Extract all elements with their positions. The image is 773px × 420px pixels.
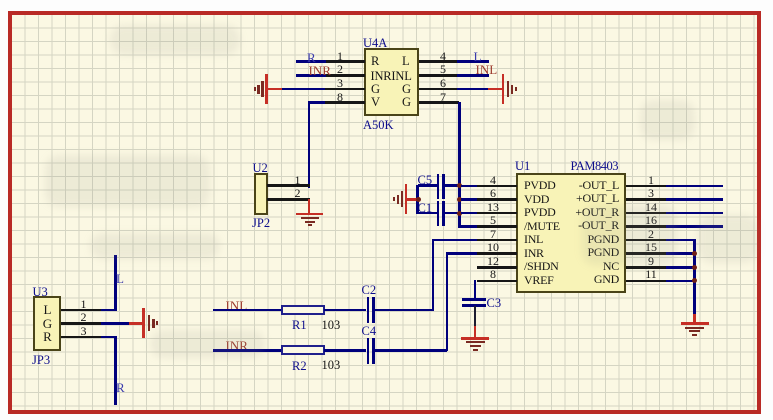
U1 pin name VREF — [524, 274, 553, 287]
junction dot right rail pin 11 — [692, 278, 697, 283]
U4A pin 6 stub — [419, 88, 459, 91]
wire red stub U4A pin6 ground — [488, 88, 503, 91]
U1 pin name INR — [524, 247, 544, 260]
watermark smudge 6 — [150, 330, 265, 358]
wire U4A pin 8 horizontal — [308, 101, 325, 104]
U1 pin number 6 — [484, 187, 502, 200]
C5 designator label — [418, 174, 433, 187]
U4A pin number 7 — [437, 91, 449, 104]
ground GND3 below U2 pin 2 — [296, 213, 323, 216]
wire U1 gnd row y280 — [666, 280, 695, 283]
capacitor C3 plates — [462, 298, 486, 301]
U1 pin 15 stub — [626, 252, 666, 255]
U1 pin number 2 — [642, 228, 660, 241]
U1 pin number 16 — [642, 214, 660, 227]
U1 pin name +OUT_L — [516, 192, 619, 205]
net label L (bottom left) — [116, 272, 124, 286]
U4A pin number 2 — [334, 63, 346, 76]
U1 designator label — [515, 160, 530, 173]
U2 value label JP2 — [252, 217, 270, 230]
wire INL left segment — [213, 309, 282, 312]
junction dot at C5/C1 ground tap — [416, 197, 421, 202]
U1 pin 9 stub — [626, 266, 666, 269]
U1 pin name GND — [516, 273, 619, 286]
U3 pin 2 stub — [61, 322, 102, 325]
ground GND7 at U3 pin 2 — [142, 308, 145, 338]
net label L (top right) — [474, 50, 482, 64]
watermark smudge 1 — [90, 233, 220, 259]
U1 pin number 9 — [642, 255, 660, 268]
U1 pin 2 stub — [626, 239, 666, 242]
wire R2 to C4 — [324, 349, 366, 352]
op-amp U4A body — [364, 48, 419, 116]
ground GND2 at U4A pin 6 — [502, 74, 505, 104]
U4A pin number 1 — [334, 50, 346, 63]
U1 pin 5 stub — [477, 225, 517, 228]
C2 designator label — [362, 284, 377, 297]
watermark smudge 5 — [45, 155, 210, 207]
wire rail to U1 pin 13 — [461, 212, 478, 215]
U1 value label PAM8403 — [571, 160, 618, 173]
U1 pin 3 stub — [626, 198, 666, 201]
net label INR (left) — [226, 339, 248, 353]
U1 pin name INL — [524, 233, 543, 246]
U1 pin 13 stub — [477, 212, 517, 215]
U1 pin 14 stub — [626, 212, 666, 215]
wire net INR to U4A pin 2 — [296, 74, 326, 77]
U1 pin number 1 — [642, 174, 660, 187]
U1 pin name PGND — [516, 233, 619, 246]
wire R1 to C2 — [324, 309, 366, 312]
net label INR (top left) — [309, 64, 331, 78]
U1 pin name NC — [516, 260, 619, 273]
capacitor C5 plates — [437, 174, 440, 199]
wire rail to U1 pin 5 — [459, 225, 478, 228]
net label R — [307, 51, 316, 65]
wire U1 output row y226 — [666, 225, 723, 228]
ground GND5 below right rail — [681, 322, 709, 325]
U1 pin number 4 — [484, 174, 502, 187]
R1 value label 103 — [322, 319, 341, 332]
C3 designator label — [487, 297, 502, 310]
R2 designator label — [292, 360, 307, 373]
wire C1 row left segment — [418, 212, 437, 215]
U4A inside pin names INR INL — [371, 70, 412, 83]
wire U4A pin 4 to net L — [457, 60, 489, 63]
capacitor C4 plates — [367, 338, 370, 364]
C4 designator label — [362, 325, 377, 338]
U4A pin 8 stub — [325, 101, 365, 104]
U2 designator label — [253, 162, 268, 175]
U2 pin 2 wire — [267, 198, 310, 201]
ground GND4 left of C5/C1 — [405, 184, 408, 214]
U3 value label JP3 — [32, 354, 50, 367]
U1 pin 6 stub — [477, 198, 517, 201]
wire red stub U4A pin3 ground — [267, 88, 282, 91]
wire rail to U1 pin 4 — [461, 185, 478, 188]
U4A inside pin name L — [402, 55, 410, 68]
U2 pin 1 wire — [267, 184, 310, 187]
wire net R vertical drop — [114, 336, 117, 405]
U2 pin number 2 — [291, 187, 304, 200]
U1 pin number 14 — [642, 201, 660, 214]
net label R (bottom left) — [116, 381, 125, 395]
U1 pin name -OUT_R — [516, 219, 619, 232]
wire U1 output row y186 — [666, 185, 723, 188]
U1 pin number 3 — [642, 187, 660, 200]
wire U1 output row y213 — [666, 212, 723, 215]
U4A pin 2 stub — [325, 74, 365, 77]
U1 pin name VDD — [524, 193, 549, 206]
junction dot rail row13 — [457, 211, 462, 216]
junction dot rail row4 — [457, 183, 462, 188]
wire U1 gnd row y253 — [666, 252, 695, 255]
U1 pin name +OUT_R — [516, 206, 619, 219]
wire U4A pin 5 to net INL — [457, 74, 489, 77]
junction dot rail row6 — [457, 197, 462, 202]
wire net R to U4A pin 1 — [296, 60, 326, 63]
U4A pin 1 stub — [325, 60, 365, 63]
U1 pin 1 stub — [626, 185, 666, 188]
C1 designator label — [418, 202, 433, 215]
U3 pin number 2 — [78, 311, 90, 324]
wire red stem C3 ground — [474, 326, 477, 338]
wire red stub ground to C5/C1 — [407, 198, 419, 201]
U4A pin 7 stub — [419, 101, 459, 104]
U4A designator label — [363, 37, 387, 50]
wire red stem right ground — [693, 314, 696, 323]
wire INL to U1 pin 7 — [432, 239, 477, 242]
U3 inside pin name R — [40, 330, 55, 344]
U4A pin number 3 — [334, 77, 346, 90]
wire INR to U1 pin 10 — [446, 252, 477, 255]
U1 pin number 8 — [484, 268, 502, 281]
watermark smudge 4 — [640, 100, 695, 140]
U4A pin 3 stub — [325, 88, 365, 91]
wire U1 gnd row y267 — [666, 266, 695, 269]
resistor R2 — [281, 345, 325, 355]
U4A pin number 5 — [437, 63, 449, 76]
U3 inside pin name G — [40, 317, 55, 331]
net label INL (left) — [226, 299, 248, 313]
U1 pin number 12 — [484, 255, 502, 268]
U4A inside pin name V — [371, 96, 380, 109]
U4A pin number 4 — [437, 50, 449, 63]
wire U1 gnd row y240 — [666, 239, 695, 242]
ground GND6 below C3 — [461, 337, 489, 340]
wire U3 pin 1 to riser — [101, 309, 117, 312]
capacitor C2 plates — [367, 297, 370, 323]
U1 pin number 10 — [484, 241, 502, 254]
junction dot right rail pin 9 — [692, 265, 697, 270]
U1 pin name -OUT_L — [516, 179, 619, 192]
U1 pin 4 stub — [477, 185, 517, 188]
U1 pin 16 stub — [626, 225, 666, 228]
U4A inside pin name G (bottom right) — [402, 96, 411, 109]
wire C2 to INL riser — [374, 309, 433, 312]
U1 pin 12 stub — [477, 266, 517, 269]
wire INR left segment — [213, 349, 282, 352]
U4A pin 4 stub — [419, 60, 459, 63]
wire net L vertical riser — [114, 255, 117, 311]
U1 pin number 13 — [484, 201, 502, 214]
wire U4A pin 8 vertical down to U2 pin 1 — [308, 102, 311, 188]
U1 pin name /SHDN — [524, 260, 559, 273]
wire C5 row right segment — [445, 184, 460, 187]
R2 value label 103 — [322, 359, 341, 372]
U4A pin number 6 — [437, 77, 449, 90]
net label INL (top right) — [476, 63, 498, 77]
wire U1 output row y199 — [666, 198, 723, 201]
U4A inside pin name R — [371, 55, 379, 68]
connector U2 body — [254, 173, 268, 215]
wire right ground rail vertical — [693, 239, 696, 315]
wire C5 row left segment — [418, 184, 437, 187]
R1 designator label — [292, 319, 307, 332]
junction dot right rail pin 15 — [692, 251, 697, 256]
U3 pin 3 stub — [61, 336, 102, 339]
amplifier U1 body — [516, 173, 626, 293]
U1 pin 8 stub — [477, 280, 517, 283]
wire INL vertical riser — [432, 239, 435, 311]
resistor R1 — [281, 305, 325, 315]
U3 inside pin name L — [40, 303, 55, 317]
wire INR vertical riser — [446, 253, 449, 351]
watermark smudge 7 — [110, 25, 240, 55]
U1 pin name /MUTE — [524, 220, 560, 233]
U1 pin 11 stub — [626, 280, 666, 283]
U1 pin name PVDD — [524, 179, 555, 192]
U1 pin number 7 — [484, 228, 502, 241]
U3 designator label — [33, 286, 48, 299]
wire red stub U3 pin 2 ground — [129, 322, 143, 325]
U3 pin 1 stub — [61, 309, 102, 312]
connector U3 body — [33, 296, 61, 351]
U1 pin 7 stub — [477, 239, 517, 242]
ground GND1 at U4A pin 3 — [265, 74, 268, 104]
wire below C3 — [474, 306, 477, 327]
wire C4 to INR riser — [374, 349, 447, 352]
U1 pin number 15 — [642, 241, 660, 254]
U4A value label A50K — [363, 119, 394, 132]
wire U1 pin 8 corner vertical to C3 — [474, 280, 477, 300]
capacitor C1 plates — [437, 201, 440, 226]
U1 pin number 5 — [484, 214, 502, 227]
wire vertical joining C5 and C1 — [416, 185, 419, 214]
U1 pin 10 stub — [477, 252, 517, 255]
U1 pin name PVDD — [524, 206, 555, 219]
wire U3 pin 3 to riser — [101, 336, 117, 339]
wire U4A pin 3 to ground — [281, 88, 325, 91]
wire C1 row right segment — [445, 212, 460, 215]
U4A inside pin name G (right) — [402, 83, 411, 96]
U4A pin number 8 — [334, 91, 346, 104]
wire U3 pin 2 toward ground — [101, 322, 130, 325]
U4A inside pin name G (left) — [371, 83, 380, 96]
watermark smudge 2 — [582, 205, 677, 265]
wire U4A pin 6 to ground — [457, 88, 488, 91]
U4A pin 5 stub — [419, 74, 459, 77]
watermark smudge 3 — [698, 215, 758, 263]
U2 pin number 1 — [291, 174, 304, 187]
U3 pin number 3 — [78, 325, 90, 338]
U3 pin number 1 — [78, 298, 90, 311]
wire red stem U2 pin 2 to ground — [308, 199, 311, 213]
wire rail to U1 pin 6 — [461, 198, 478, 201]
U1 pin number 11 — [642, 268, 660, 281]
wire power rail vertical from U4A pin 7 — [458, 102, 461, 228]
U1 pin name PGND — [516, 246, 619, 259]
